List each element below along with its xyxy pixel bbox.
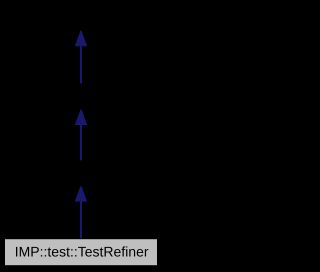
arrow bottom (inheritance edge 3) <box>75 186 87 239</box>
arrow middle (inheritance edge 2) <box>75 110 87 161</box>
node box fill and border <box>5 239 158 266</box>
node box IMP::test::TestRefiner <box>5 239 158 266</box>
node label text: IMP::test::TestRefiner <box>16 246 148 256</box>
arrow top (inheritance edge 1) <box>75 31 87 84</box>
